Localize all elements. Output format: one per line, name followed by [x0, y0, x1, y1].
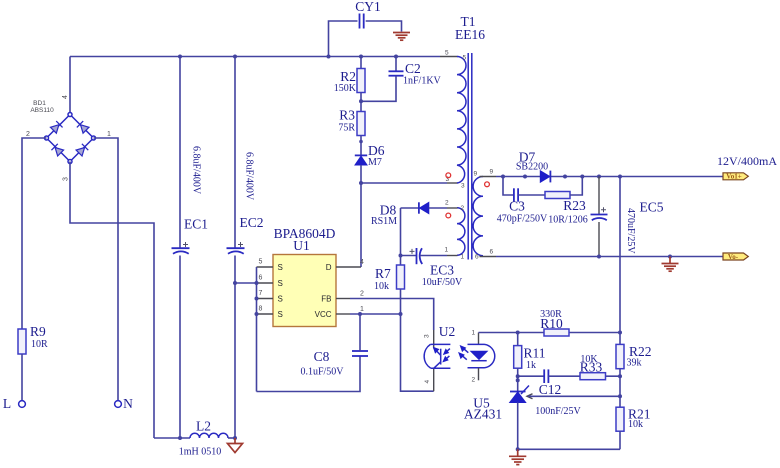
wire: Vo- rail pin6 to Vo- port: [496, 256, 723, 258]
resistor R11 1k: [514, 333, 546, 381]
svg-text:R10: R10: [540, 316, 563, 331]
svg-text:U1: U1: [293, 238, 310, 253]
svg-text:470pF/250V: 470pF/250V: [497, 214, 548, 225]
svg-text:N: N: [123, 396, 133, 411]
svg-text:39k: 39k: [627, 358, 642, 369]
pin: transformer pin 5 lead: [440, 56, 458, 58]
optocoupler U2 LED side: [459, 330, 495, 384]
svg-text:10uF/50V: 10uF/50V: [422, 277, 463, 288]
svg-text:2: 2: [26, 131, 30, 138]
node: R2/R3/C2 junction: [359, 99, 363, 103]
wire: FB net to optocoupler: [350, 299, 434, 331]
svg-text:12V/400mA: 12V/400mA: [717, 154, 777, 168]
node L: input terminal L: [3, 396, 26, 411]
shunt regulator U5 AZ431: [464, 380, 620, 449]
transformer T1 EE16: [445, 14, 494, 261]
svg-text:4: 4: [62, 95, 69, 99]
resistor R3 75R: [338, 101, 365, 155]
svg-text:ABS110: ABS110: [30, 107, 54, 114]
bridge rectifier BD1 ABS110: [26, 95, 111, 181]
node: pin 8 bus junction: [255, 312, 259, 316]
svg-text:CY1: CY1: [355, 0, 381, 14]
svg-text:R23: R23: [563, 198, 586, 213]
node: rail junction at C2: [394, 55, 398, 59]
wire: U2 emitter return to VCC node: [401, 314, 434, 391]
svg-text:Vo1+: Vo1+: [726, 173, 741, 181]
svg-text:3: 3: [461, 183, 465, 190]
capacitor EC1 6.8uF/400V: [172, 57, 209, 439]
svg-text:5: 5: [463, 55, 467, 62]
svg-text:R9: R9: [30, 324, 46, 339]
svg-text:0.1uF/50V: 0.1uF/50V: [300, 367, 344, 378]
node: C8/VCC junction: [358, 312, 362, 316]
svg-text:1mH 0510: 1mH 0510: [179, 447, 222, 458]
wire: C12/R33 branch: [518, 375, 544, 377]
wire: source bus to EC2 column: [235, 282, 257, 284]
svg-text:8: 8: [259, 306, 263, 313]
node: LED cathode / U5 junction: [516, 378, 520, 382]
node: snubber right junction: [580, 175, 584, 179]
wire: bridge pin 2 to L input: [22, 138, 47, 329]
svg-text:4: 4: [424, 380, 431, 384]
ground: earth ground on Vo- rail: [662, 257, 679, 272]
diode D8 RS1M: [371, 202, 447, 227]
svg-text:1: 1: [472, 330, 476, 337]
svg-text:S: S: [278, 310, 283, 319]
pin: secondary pin 9 lead: [480, 176, 497, 178]
pin: U1 pin 2 FB stub: [336, 298, 350, 300]
pin: U1 pin 7 stub: [257, 298, 274, 300]
svg-text:3: 3: [63, 177, 70, 181]
wire: VCC net: [350, 313, 401, 315]
svg-text:7: 7: [259, 290, 263, 297]
svg-text:2: 2: [461, 205, 465, 212]
capacitor C2 1nF/1KV: [361, 57, 442, 102]
svg-text:75R: 75R: [338, 123, 355, 134]
node: node A right junction: [618, 331, 622, 335]
svg-text:EC2: EC2: [239, 215, 263, 230]
svg-text:2: 2: [472, 377, 476, 384]
svg-text:1: 1: [107, 131, 111, 138]
node: rail junction at EC1: [178, 55, 182, 59]
svg-text:6.8uF/400V: 6.8uF/400V: [244, 152, 255, 201]
resistor R33 10K: [580, 354, 606, 380]
port Vo-: [723, 253, 748, 261]
node: R3/D6 pin junction: [359, 140, 363, 144]
svg-text:10R: 10R: [31, 339, 48, 350]
svg-text:C12: C12: [539, 382, 562, 397]
node: rail junction at EC2: [233, 55, 237, 59]
svg-text:SB2200: SB2200: [516, 162, 548, 173]
svg-text:S: S: [278, 279, 283, 288]
svg-text:FB: FB: [321, 295, 331, 304]
svg-text:C2: C2: [405, 61, 421, 76]
svg-text:1: 1: [445, 247, 449, 254]
node: pin 7 bus junction: [255, 297, 259, 301]
node N: input terminal N: [115, 396, 134, 411]
svg-text:R7: R7: [375, 266, 391, 281]
svg-text:10k: 10k: [374, 281, 389, 292]
node: EC2 column junction: [233, 281, 237, 285]
svg-text:RS1M: RS1M: [371, 216, 397, 227]
capacitor C8 0.1uF/50V: [300, 314, 368, 378]
node: EC5 bottom junction: [597, 255, 601, 259]
svg-text:10k: 10k: [628, 419, 643, 430]
resistor R9: [18, 324, 48, 354]
svg-text:L2: L2: [196, 419, 211, 434]
wire: L2 to EC2 bottom node: [228, 437, 235, 439]
pin: U1 pin 8 stub: [257, 313, 274, 315]
port Vo1+: [723, 173, 748, 181]
resistor R21 10k: [616, 407, 651, 450]
node: R11 top junction: [516, 331, 520, 335]
wire: C12 to R33 to node C: [548, 375, 620, 377]
svg-text:D: D: [326, 263, 332, 272]
node: R7/VCC junction: [399, 312, 403, 316]
resistor R2 150K: [334, 57, 365, 102]
node: D7 cathode pin junction: [563, 175, 567, 179]
svg-text:6.8uF/400V: 6.8uF/400V: [191, 146, 202, 195]
wire: C8 loop bottom: [257, 356, 361, 391]
capacitor EC3 10uF/50V: [401, 248, 464, 288]
pin: U1 pin 6 stub: [257, 282, 274, 284]
svg-text:VCC: VCC: [315, 310, 332, 319]
node: D7 anode pin junction: [523, 175, 527, 179]
svg-text:9: 9: [490, 169, 494, 176]
svg-text:EC1: EC1: [184, 217, 208, 232]
capacitor C3 470pF/250V: [497, 188, 548, 224]
svg-text:R2: R2: [340, 69, 356, 84]
node: R22 bottom / R33 junction: [618, 374, 622, 378]
pin: aux winding pin 1 lead: [447, 255, 458, 257]
svg-text:S: S: [278, 263, 283, 272]
resistor R23 10R/1206: [545, 192, 588, 226]
ground: earth ground at CY1: [393, 33, 410, 41]
svg-text:5: 5: [259, 259, 263, 266]
diode D6 M7: [355, 143, 385, 183]
svg-text:150K: 150K: [334, 83, 357, 94]
svg-text:4: 4: [360, 259, 364, 266]
svg-text:100nF/25V: 100nF/25V: [535, 406, 581, 417]
wire: junction to transformer pin 3: [361, 182, 447, 184]
svg-text:S: S: [278, 295, 283, 304]
inductor L2: [179, 419, 228, 458]
capacitor EC5 470uF/25V: [591, 177, 664, 257]
resistor R10 330R: [540, 309, 569, 336]
svg-text:EC3: EC3: [430, 263, 454, 278]
ground: primary ground triangle at L2: [228, 438, 243, 453]
svg-text:R11: R11: [524, 346, 546, 361]
wire: HV+ rail from bridge to transformer: [70, 56, 440, 58]
svg-text:5: 5: [445, 50, 449, 57]
pin: U1 pin 5 stub: [257, 266, 274, 268]
svg-text:M7: M7: [368, 157, 382, 168]
svg-text:1nF/1KV: 1nF/1KV: [403, 76, 442, 87]
svg-text:2: 2: [445, 200, 449, 207]
node: output column junction: [618, 175, 622, 179]
capacitor CY1: [329, 0, 402, 57]
wire: source pin bus: [256, 267, 258, 392]
pin: U1 pin 4 drain stub: [336, 266, 361, 268]
node: rail junction at CY1: [327, 55, 331, 59]
node: REF junction: [618, 394, 622, 398]
node: EC1 bottom junction: [178, 436, 182, 440]
svg-text:D6: D6: [368, 143, 385, 158]
svg-text:1: 1: [461, 254, 465, 261]
svg-text:6: 6: [490, 249, 494, 256]
wire: R9 to L terminal: [21, 354, 23, 401]
wire: output line pin9 to Vo1+ port: [496, 176, 723, 178]
wire: bottom rail to L2: [154, 437, 190, 439]
svg-text:C8: C8: [314, 349, 330, 364]
svg-text:EE16: EE16: [455, 27, 485, 42]
node: D8/EC3/R7 junction: [399, 254, 403, 258]
svg-text:3: 3: [424, 334, 431, 338]
wire: D8 cathode down to VCC supply node: [400, 208, 402, 256]
svg-text:L: L: [3, 396, 11, 411]
resistor R7 10k: [374, 256, 405, 315]
svg-text:R33: R33: [580, 360, 603, 375]
svg-text:2: 2: [360, 291, 364, 298]
wire: bridge pin 3 to bottom rail: [70, 162, 154, 439]
svg-text:BD1: BD1: [33, 100, 46, 107]
wire: divider middle segment: [619, 376, 621, 407]
node: secondary ground junction: [668, 255, 672, 259]
svg-text:6: 6: [475, 254, 479, 261]
svg-text:AZ431: AZ431: [464, 407, 502, 422]
capacitor C12 100nF/25V: [535, 369, 581, 417]
resistor R22 39k: [616, 333, 652, 377]
ground: earth ground at U5: [509, 449, 526, 464]
wire: feedback ground return: [518, 448, 620, 450]
capacitor EC2 6.8uF/400V: [227, 57, 264, 439]
node: EC5 top junction: [597, 175, 601, 179]
svg-text:1: 1: [360, 306, 364, 313]
svg-text:Vo-: Vo-: [728, 253, 739, 261]
svg-text:U2: U2: [439, 324, 456, 339]
wire: junction down to U1 drain pin: [360, 183, 362, 267]
pin: aux winding pin 2 lead: [447, 207, 458, 209]
node: EC2 bottom junction: [233, 436, 237, 440]
node: rail junction at R2: [359, 55, 363, 59]
wire: R23 up to output line: [570, 177, 582, 196]
svg-text:R3: R3: [339, 108, 355, 123]
wire: snubber loop: [503, 177, 513, 196]
node: pin 6 bus junction: [255, 281, 259, 285]
svg-text:470uF/25V: 470uF/25V: [625, 208, 636, 254]
svg-text:EC5: EC5: [639, 200, 663, 215]
node: U5 anode ground junction: [516, 447, 520, 451]
node: R11 bottom / C12 junction: [516, 374, 520, 378]
diode D7 SB2200: [516, 150, 551, 183]
svg-text:10R/1206: 10R/1206: [548, 215, 587, 226]
optocoupler U2 phototransistor: [424, 324, 456, 384]
wire: output column down to feedback divider: [619, 177, 621, 333]
wire: C3 to R23: [518, 194, 545, 196]
wire: bridge pin 1 to N terminal: [94, 138, 119, 401]
svg-text:9: 9: [474, 171, 478, 178]
node: snubber left junction: [501, 175, 505, 179]
pin: secondary pin 6 lead: [480, 256, 497, 258]
svg-text:6: 6: [259, 275, 263, 282]
node: D6 / primary pin3 / D-pin junction: [359, 181, 363, 185]
IC U1 BPA8604D: [259, 226, 365, 327]
svg-text:1k: 1k: [526, 360, 536, 371]
svg-text:C3: C3: [509, 199, 525, 214]
pin: U1 pin 1 VCC stub: [336, 313, 350, 315]
pin: transformer pin 3 lead: [447, 182, 458, 184]
wire: node A line LED anode to divider: [479, 332, 621, 334]
wire: bridge top vertex to rail: [69, 57, 71, 113]
